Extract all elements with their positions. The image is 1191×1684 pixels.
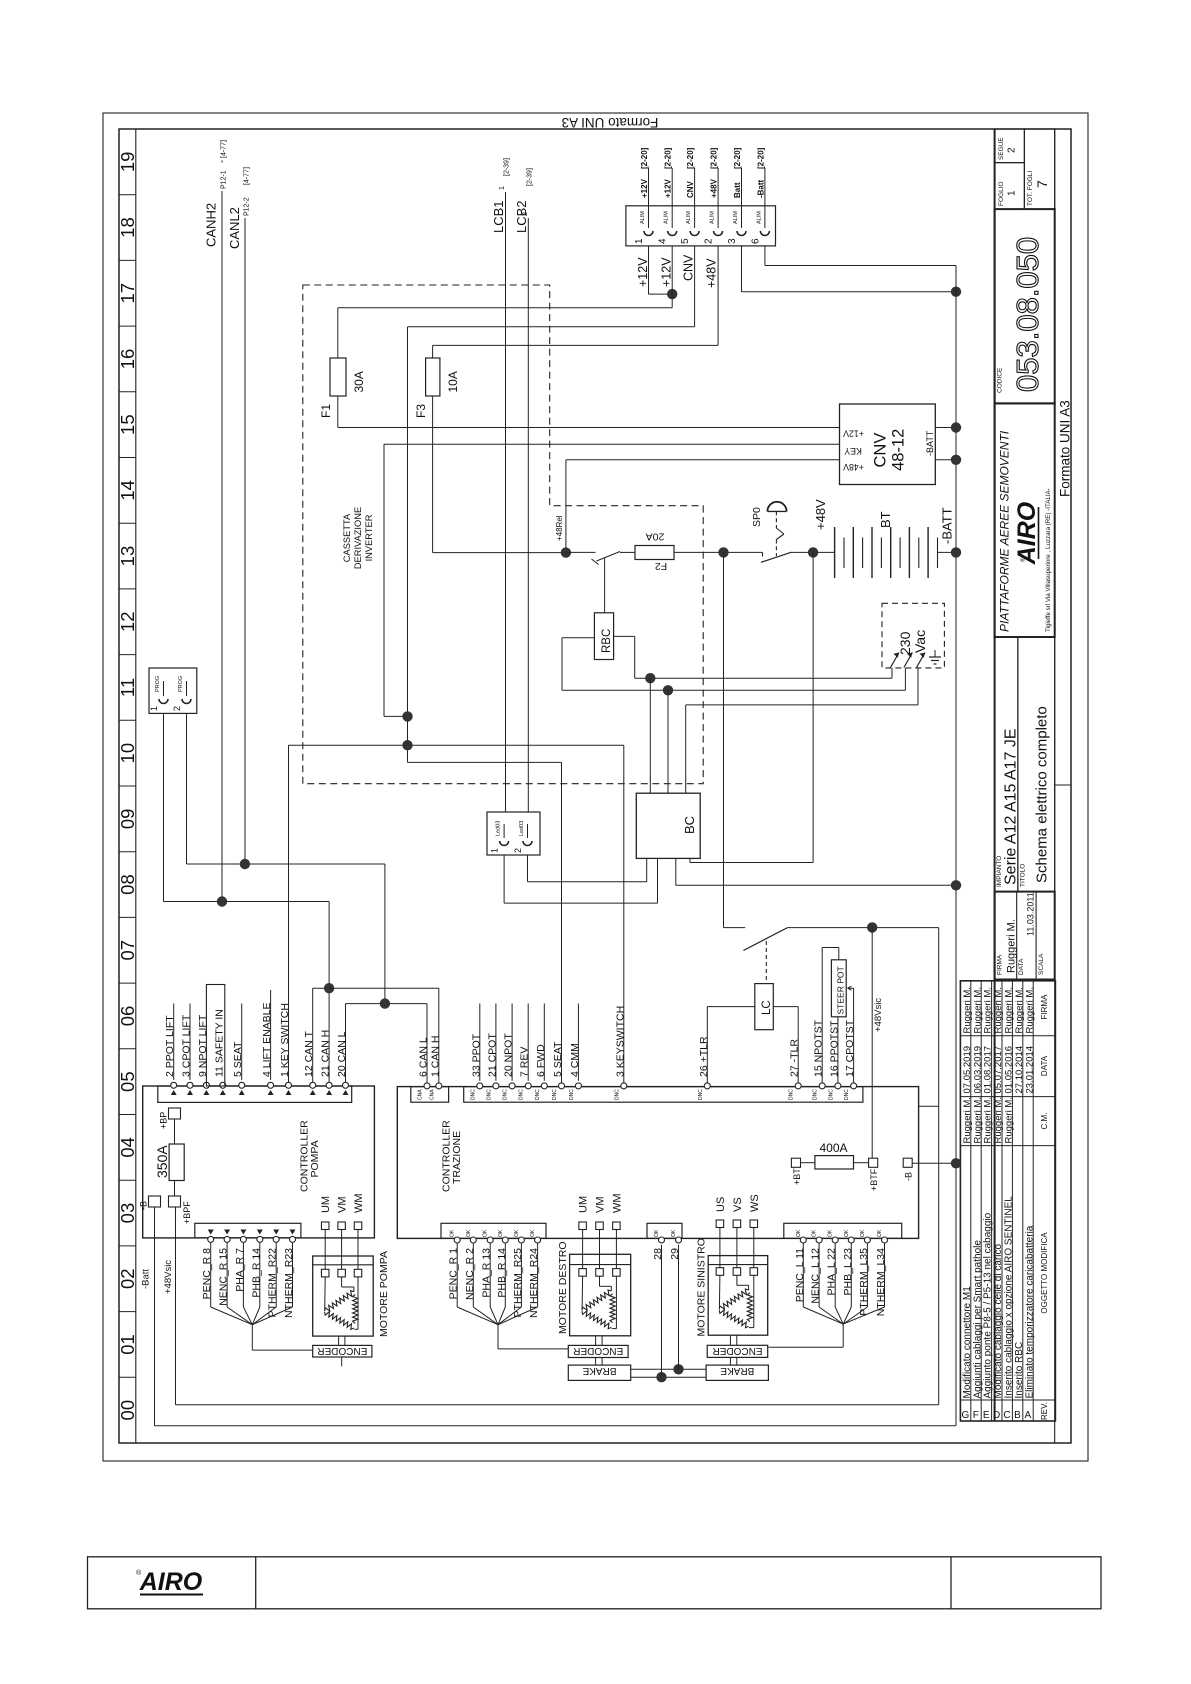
- svg-text:6 FWD: 6 FWD: [535, 1044, 547, 1077]
- node +48Rel: [561, 547, 571, 557]
- title block cell FOGLIO: [995, 163, 1025, 210]
- svg-text:PTHERM_R25: PTHERM_R25: [512, 1248, 524, 1318]
- svg-text:230: 230: [897, 631, 913, 655]
- junction -B rail: [951, 1158, 961, 1168]
- junction CANL2 end: [240, 859, 250, 869]
- pin 23 NTHERM_R pompa: [283, 1230, 296, 1319]
- svg-text:MOTORE DESTRO: MOTORE DESTRO: [557, 1241, 569, 1334]
- pin 4 LIFT ENABLE pompa: [261, 1002, 274, 1095]
- svg-text:G: G: [962, 1410, 970, 1421]
- connector strip traction bottom brake: [647, 1223, 682, 1238]
- svg-text:1: 1: [1007, 190, 1018, 196]
- motor MOTORE POMPA: [313, 1251, 390, 1337]
- svg-text:[4-77]: [4-77]: [221, 140, 228, 158]
- svg-text:20 NPOT: 20 NPOT: [503, 1033, 515, 1077]
- svg-text:350A: 350A: [154, 1145, 170, 1178]
- pin 5 SEAT pompa: [232, 1041, 245, 1095]
- svg-text:A: A: [1024, 1410, 1031, 1421]
- pin 7 PHA_R pompa: [234, 1230, 247, 1292]
- svg-text:27 -TLR: 27 -TLR: [789, 1039, 801, 1077]
- svg-text:SCALA: SCALA: [1038, 953, 1045, 975]
- wire CNV -BATT pins to rail: [935, 427, 956, 429]
- svg-text:NTHERM_R23: NTHERM_R23: [283, 1248, 295, 1318]
- svg-text:DATA: DATA: [1040, 1055, 1049, 1076]
- svg-text:+BT: +BT: [792, 1168, 802, 1185]
- svg-text:08: 08: [117, 874, 138, 895]
- svg-text:+48Vsic: +48Vsic: [873, 998, 884, 1032]
- svg-text:PTHERM_L35: PTHERM_L35: [858, 1248, 870, 1316]
- svg-text:DNC: DNC: [789, 1089, 795, 1100]
- svg-text:PHB_R 14: PHB_R 14: [496, 1248, 508, 1298]
- pin 22 PHA_L traction: [826, 1229, 839, 1295]
- svg-text:INVERTER: INVERTER: [364, 514, 374, 561]
- labels +12V +12V CNV +48V below ALIM: [636, 254, 719, 288]
- svg-text:Led03: Led03: [496, 821, 502, 836]
- wire 230Vac line1: [635, 677, 892, 679]
- junction CANL: [380, 998, 390, 1008]
- svg-text:PTHERM_R22: PTHERM_R22: [267, 1248, 279, 1318]
- wire F1 to CNV +12V: [338, 427, 840, 429]
- svg-text:+48V: +48V: [813, 499, 828, 530]
- svg-text:Eliminato temporizzatore caric: Eliminato temporizzatore caricabatteria: [1024, 1225, 1035, 1398]
- node CANH2 from P12-1: [204, 140, 228, 901]
- revision row B: [1014, 987, 1025, 1421]
- svg-text:10: 10: [117, 743, 138, 764]
- converter CNV 48-12: [840, 404, 936, 485]
- svg-text:F: F: [973, 1410, 979, 1421]
- title block strip line: [1054, 129, 1056, 1443]
- connector strip traction bottom right: [784, 1223, 902, 1238]
- svg-text:TITOLO: TITOLO: [1020, 864, 1027, 887]
- pompa stub PPOT: [173, 1004, 175, 1081]
- wire ALIM pin4 to F1: [671, 246, 673, 308]
- svg-text:UM: UM: [320, 1196, 332, 1213]
- wire LC left to +TLR: [707, 1006, 755, 1008]
- node LCB2: [514, 168, 533, 812]
- svg-text:2: 2: [704, 238, 715, 244]
- svg-text:CNA: CNA: [429, 1089, 435, 1100]
- svg-text:PHB_R 14: PHB_R 14: [250, 1248, 262, 1298]
- svg-text:29: 29: [669, 1248, 681, 1260]
- wire LC right to -TLR: [773, 1006, 798, 1008]
- svg-text:[2-20]: [2-20]: [710, 147, 719, 169]
- svg-text:ENCODER: ENCODER: [573, 1345, 623, 1356]
- svg-text:+BTF: +BTF: [869, 1168, 879, 1191]
- node LCB1: [491, 158, 511, 812]
- svg-text:[2-20]: [2-20]: [640, 147, 649, 169]
- pin 26 +TLR traction: [698, 1036, 711, 1100]
- svg-text:CNA: CNA: [418, 1089, 424, 1100]
- svg-text:+12V: +12V: [660, 257, 674, 287]
- svg-text:2: 2: [1007, 147, 1018, 153]
- svg-text:Ruggeri M.: Ruggeri M.: [962, 987, 973, 1033]
- revision table header labels: [1040, 994, 1049, 1420]
- junction BC ac2: [663, 685, 673, 695]
- svg-text:SP0: SP0: [751, 507, 763, 527]
- pin 1 KEY SWITCH pompa: [279, 1003, 292, 1095]
- wire KEYSWITCH traction: [623, 745, 625, 1086]
- svg-text:ALIM: ALIM: [710, 211, 716, 224]
- svg-text:2 PPOT LIFT: 2 PPOT LIFT: [164, 1015, 176, 1077]
- svg-text:3 KEYSWITCH: 3 KEYSWITCH: [614, 1006, 626, 1077]
- pin 13 PHA_R traction: [481, 1229, 494, 1297]
- svg-text:PHA_L 22: PHA_L 22: [826, 1248, 838, 1296]
- svg-text:OK: OK: [828, 1229, 834, 1237]
- svg-text:BRAKE: BRAKE: [582, 1365, 616, 1376]
- svg-text:DNC: DNC: [569, 1089, 575, 1100]
- svg-text:48-12: 48-12: [890, 429, 908, 471]
- pin 3 CPOT LIFT pompa: [181, 1014, 194, 1095]
- revision row F: [972, 987, 983, 1421]
- svg-text:DNC: DNC: [698, 1089, 704, 1100]
- svg-text:+BP: +BP: [159, 1112, 169, 1129]
- svg-text:[4-77]: [4-77]: [244, 167, 251, 185]
- svg-text:4 CMM: 4 CMM: [569, 1043, 581, 1077]
- wire ALIM pin5 CNV net: [694, 246, 696, 327]
- junction BC ac1: [645, 673, 655, 683]
- pin 24 NTHERM_R traction: [528, 1229, 541, 1318]
- connector Led03: [487, 812, 540, 855]
- wire brake pin 28: [661, 1245, 663, 1377]
- connector strip traction main: [464, 1087, 863, 1103]
- svg-text:01.05.2016: 01.05.2016: [1004, 1046, 1015, 1094]
- connector strip traction CAN: [411, 1087, 449, 1103]
- junction CNV rail upper: [951, 422, 961, 432]
- wire RBC coil left: [562, 637, 594, 639]
- junction CANH2 end: [217, 896, 227, 906]
- AIRO logo footer: [136, 1568, 203, 1596]
- pin 28 brake traction: [652, 1229, 665, 1260]
- pin 16 PPOTST traction: [828, 1020, 841, 1100]
- pin 14 PHB_R traction: [496, 1229, 509, 1297]
- brake sinistro: [706, 1365, 768, 1380]
- svg-text:CASSETTA: CASSETTA: [342, 513, 352, 562]
- svg-text:+BPF: +BPF: [182, 1201, 192, 1224]
- svg-text:30A: 30A: [352, 371, 366, 392]
- revision row G: [962, 987, 973, 1421]
- junction brake 29: [673, 1364, 683, 1374]
- svg-text:OK: OK: [671, 1229, 677, 1237]
- svg-text:+12V: +12V: [664, 178, 673, 198]
- svg-text:01.08.2017: 01.08.2017: [983, 1046, 994, 1094]
- svg-text:20A: 20A: [646, 531, 665, 543]
- source 230 Vac (dashed): [882, 603, 944, 668]
- svg-text:2: 2: [172, 706, 182, 711]
- formato strip divider: [1055, 784, 1071, 786]
- svg-text:+48V: +48V: [843, 462, 864, 472]
- svg-text:D: D: [993, 1410, 1000, 1421]
- svg-text:DNC: DNC: [519, 1089, 525, 1100]
- svg-text:CNV: CNV: [686, 180, 695, 198]
- traction UM VM WM terminals: [578, 1193, 624, 1268]
- svg-text:NTHERM_L34: NTHERM_L34: [875, 1248, 887, 1316]
- wire F2 to SP0: [674, 551, 763, 553]
- wire CNV-KEY net horizontal: [289, 744, 624, 746]
- junction +48Vsic tap: [867, 922, 877, 932]
- revision row E: [983, 987, 994, 1421]
- wire 230Vac earth: [686, 704, 918, 706]
- svg-text:5 SEAT: 5 SEAT: [552, 1041, 564, 1077]
- svg-text:OK: OK: [844, 1229, 850, 1237]
- svg-text:Led03: Led03: [519, 821, 525, 836]
- svg-text:03: 03: [117, 1203, 138, 1224]
- svg-text:Serie A12 A15 A17 JE: Serie A12 A15 A17 JE: [1003, 728, 1020, 885]
- AIRO logo in title block: [1013, 501, 1041, 565]
- pin 17 CPOTST traction: [844, 1019, 857, 1100]
- wire CANH down: [328, 902, 330, 1087]
- wire PROG2 to CANL: [186, 713, 188, 864]
- wire PPOTST to pot: [837, 1017, 839, 1087]
- svg-text:Formato UNI A3: Formato UNI A3: [1058, 400, 1073, 497]
- svg-text:DNC: DNC: [503, 1089, 509, 1100]
- wire 230Vac line2: [562, 689, 905, 691]
- svg-text:[2-20]: [2-20]: [686, 147, 695, 169]
- pin 35 PTHERM_L traction: [858, 1229, 871, 1316]
- svg-text:ALIM: ALIM: [733, 211, 739, 224]
- svg-text:MOTORE POMPA: MOTORE POMPA: [378, 1251, 390, 1337]
- svg-text:6: 6: [750, 238, 761, 244]
- svg-text:Vac: Vac: [912, 630, 928, 653]
- svg-text:OK: OK: [877, 1229, 883, 1237]
- pin 27 -TLR traction: [789, 1039, 802, 1100]
- svg-text:Ruggeri M.: Ruggeri M.: [962, 1097, 973, 1143]
- title block cell SEGUE: [995, 129, 1025, 163]
- svg-text:-Batt: -Batt: [141, 1269, 152, 1289]
- pin 4 CMM traction: [569, 1043, 582, 1100]
- svg-text:E: E: [983, 1410, 990, 1421]
- svg-text:13: 13: [117, 546, 138, 567]
- svg-text:33 PPOT: 33 PPOT: [470, 1033, 482, 1077]
- wire F3 to +48Rel: [433, 552, 566, 554]
- svg-text:Ruggeri M.: Ruggeri M.: [1004, 1097, 1015, 1143]
- encoder pompa: [313, 1336, 372, 1366]
- svg-text:Modificato connettore M1: Modificato connettore M1: [962, 1286, 973, 1399]
- svg-text:MOTORE SINISTRO: MOTORE SINISTRO: [696, 1238, 708, 1336]
- encoder sinistro: [707, 1335, 768, 1365]
- footer bar: [88, 1557, 1102, 1609]
- svg-text:FIRMA: FIRMA: [997, 954, 1004, 975]
- svg-text:PENC_R 1: PENC_R 1: [448, 1248, 460, 1300]
- svg-text:F3: F3: [414, 404, 428, 418]
- svg-text:Ruggeri M.: Ruggeri M.: [983, 1097, 994, 1143]
- svg-text:26 +TLR: 26 +TLR: [698, 1036, 710, 1077]
- svg-text:1: 1: [149, 706, 159, 711]
- pompa motor funnel wires: [211, 1243, 313, 1350]
- svg-text:-B: -B: [139, 1201, 149, 1210]
- svg-text:ENCODER: ENCODER: [317, 1345, 367, 1356]
- svg-text:Schema elettrico completo: Schema elettrico completo: [1034, 706, 1051, 883]
- svg-text:5: 5: [680, 238, 691, 244]
- svg-text:19: 19: [117, 152, 138, 173]
- title block row FIRMA DATA SCALA: [995, 892, 1055, 980]
- pad -B traction: [903, 1158, 956, 1181]
- svg-text:PENC_L 11: PENC_L 11: [794, 1248, 806, 1302]
- wire CPOTST wiper: [853, 988, 855, 1086]
- brake destro: [568, 1365, 630, 1380]
- controller CONTROLLER POMPA: [143, 1086, 375, 1238]
- wire CANL down: [384, 864, 386, 1004]
- svg-text:Ruggeri M.: Ruggeri M.: [1004, 987, 1015, 1033]
- svg-text:AIRO: AIRO: [139, 1568, 203, 1596]
- svg-text:CNV: CNV: [682, 254, 696, 281]
- svg-text:ALIM: ALIM: [756, 211, 762, 224]
- svg-text:KEY: KEY: [844, 446, 862, 456]
- svg-text:OGGETTO MODIFICA: OGGETTO MODIFICA: [1040, 1232, 1049, 1314]
- junction battery positive: [808, 547, 818, 557]
- pin 9 NPOT LIFT pompa: [197, 1014, 210, 1095]
- svg-text:DNC: DNC: [828, 1089, 834, 1100]
- svg-text:Ruggeri M.: Ruggeri M.: [1006, 919, 1018, 973]
- winding delta pompa: [325, 1277, 358, 1330]
- fuse F1 30A: [319, 308, 366, 428]
- motor MOTORE DESTRO: [557, 1241, 631, 1335]
- svg-text:SEGUE: SEGUE: [998, 137, 1005, 160]
- switch SP0 pushbutton: [751, 502, 792, 562]
- wire brake bus upper: [631, 1368, 706, 1370]
- svg-text:+48Vsic: +48Vsic: [163, 1260, 174, 1294]
- svg-text:+48V: +48V: [705, 258, 719, 288]
- pompa UM VM WM terminals: [320, 1193, 365, 1269]
- encoder destro: [568, 1336, 628, 1365]
- svg-text:F2: F2: [655, 560, 667, 572]
- revision row D: [993, 987, 1004, 1421]
- connector PROG: [149, 668, 197, 713]
- svg-text:1: 1: [490, 848, 500, 853]
- wire BC to Led03 pin1: [657, 858, 659, 903]
- svg-text:[2-20]: [2-20]: [733, 147, 742, 169]
- wire battery positive to BC: [812, 552, 814, 862]
- svg-text:PHB_L 23: PHB_L 23: [842, 1248, 854, 1296]
- svg-text:05.07.2017: 05.07.2017: [993, 1046, 1004, 1094]
- wire SEAT net: [408, 761, 562, 763]
- svg-text:®: ®: [1020, 557, 1027, 562]
- pin 12 CAN T pompa: [303, 1031, 316, 1095]
- pin 12 NENC_L traction: [810, 1229, 823, 1304]
- svg-text:OK: OK: [796, 1229, 802, 1237]
- svg-text:PROG: PROG: [178, 676, 184, 692]
- svg-text:NENC_R 2: NENC_R 2: [464, 1248, 476, 1300]
- wire CANT link: [313, 987, 329, 989]
- svg-text:15 NPOTST: 15 NPOTST: [813, 1019, 825, 1077]
- pin 11 SAFETY IN pompa: [213, 1009, 226, 1095]
- svg-text:NENC_L 12: NENC_L 12: [810, 1248, 822, 1304]
- revision table: [960, 981, 1055, 1421]
- svg-text:PHA_R 13: PHA_R 13: [481, 1248, 493, 1298]
- svg-text:7 REV: 7 REV: [519, 1047, 531, 1077]
- svg-text:18: 18: [117, 217, 138, 238]
- pompa stub LIFT ENABLE: [270, 990, 272, 1080]
- title block cell IMPIANTO: [995, 637, 1020, 892]
- svg-text:DATA: DATA: [1018, 958, 1025, 975]
- svg-text:C: C: [1003, 1410, 1010, 1421]
- svg-text:CNV: CNV: [872, 433, 890, 468]
- svg-text:CANL2: CANL2: [227, 207, 242, 249]
- svg-text:27.10.2014: 27.10.2014: [1014, 1046, 1025, 1094]
- winding delta destro: [582, 1276, 616, 1329]
- svg-text:3 CPOT LIFT: 3 CPOT LIFT: [181, 1014, 193, 1077]
- svg-text:OK: OK: [498, 1229, 504, 1237]
- junction BC rail: [951, 880, 961, 890]
- battery charger BC: [636, 793, 700, 858]
- wire ALIM pin1 to junction: [648, 246, 650, 294]
- junction pin1/pin4: [667, 289, 677, 299]
- svg-text:OK: OK: [466, 1229, 472, 1237]
- traction stubs: [480, 1004, 579, 1081]
- svg-text:17: 17: [117, 283, 138, 304]
- ruler strip line: [135, 129, 137, 1443]
- svg-text:21 CPOT: 21 CPOT: [486, 1033, 498, 1077]
- svg-text:+48Rel: +48Rel: [555, 515, 564, 541]
- svg-text:16: 16: [117, 349, 138, 370]
- svg-text:1 KEY SWITCH: 1 KEY SWITCH: [279, 1003, 291, 1077]
- pin 23 PHB_L traction: [842, 1229, 855, 1295]
- svg-text:F1: F1: [319, 404, 333, 418]
- pin 21 CAN H pompa: [320, 1030, 333, 1095]
- svg-text:DNC: DNC: [552, 1089, 558, 1100]
- pad -B pompa: [139, 1196, 161, 1210]
- svg-text:-Batt: -Batt: [756, 179, 765, 198]
- svg-text:Ruggeri M.: Ruggeri M.: [1014, 987, 1025, 1033]
- svg-text:21 CAN H: 21 CAN H: [320, 1030, 332, 1077]
- svg-text:20 CAN L: 20 CAN L: [336, 1031, 348, 1077]
- pin 3 KEYSWITCH traction: [614, 1006, 627, 1100]
- pin 20 CAN L pompa: [336, 1031, 349, 1095]
- svg-text:DNC: DNC: [486, 1089, 492, 1100]
- svg-text:OK: OK: [812, 1229, 818, 1237]
- svg-text:BC: BC: [682, 816, 697, 834]
- svg-text:TOT. FOGLI: TOT. FOGLI: [1027, 171, 1034, 206]
- svg-text:07: 07: [117, 940, 138, 961]
- fuse F3 10A: [414, 345, 460, 552]
- svg-text:00: 00: [117, 1400, 138, 1421]
- svg-text:06.03.2019: 06.03.2019: [972, 1046, 983, 1094]
- wire keyswitch feed: [723, 552, 725, 927]
- title block cell TOT. FOGLI: [1024, 129, 1054, 209]
- pin 21 CPOT traction: [486, 1033, 499, 1100]
- wire ALIM pin2 to F3: [717, 246, 719, 346]
- wire SP0 to battery: [792, 551, 835, 553]
- junction CANH pompa: [324, 983, 334, 993]
- svg-text:ALIM: ALIM: [686, 211, 692, 224]
- svg-text:BRAKE: BRAKE: [720, 1365, 754, 1376]
- svg-text:10A: 10A: [446, 371, 460, 392]
- svg-text:7: 7: [1034, 180, 1050, 188]
- potentiometer STEER POT: [831, 960, 846, 1017]
- svg-text:Formato UNI A3: Formato UNI A3: [562, 115, 659, 130]
- svg-text:Modificato cablaggio celle di: Modificato cablaggio celle di carico: [993, 1244, 1004, 1399]
- svg-text:17 CPOTST: 17 CPOTST: [844, 1019, 856, 1077]
- svg-text:PIATTAFORME AEREE SEMOVENTI: PIATTAFORME AEREE SEMOVENTI: [998, 430, 1012, 632]
- svg-text:WM: WM: [353, 1193, 365, 1213]
- svg-text:06: 06: [117, 1006, 138, 1027]
- wire ALIM pin3 Batt to rail: [741, 246, 743, 292]
- svg-text:LCB1: LCB1: [491, 200, 506, 233]
- svg-text:+12V: +12V: [636, 257, 650, 287]
- svg-text:Aggiunto ponte P8-5 / P5-13 ne: Aggiunto ponte P8-5 / P5-13 nel cabaggio: [983, 1212, 994, 1398]
- svg-text:1: 1: [499, 186, 506, 190]
- svg-text:NTHERM_R24: NTHERM_R24: [528, 1248, 540, 1318]
- wire KEY net to CNV: [384, 443, 840, 445]
- svg-text:LC: LC: [761, 1000, 773, 1015]
- svg-text:CANH2: CANH2: [204, 203, 219, 247]
- battery BT: [835, 511, 938, 578]
- svg-text:Inserito RBC: Inserito RBC: [1014, 1342, 1025, 1399]
- junction Batt rail: [951, 287, 961, 297]
- svg-text:FIRMA: FIRMA: [1040, 994, 1049, 1020]
- revision row C: [1003, 987, 1014, 1421]
- svg-text:DNC: DNC: [535, 1089, 541, 1100]
- svg-text:P12-1: P12-1: [221, 170, 228, 189]
